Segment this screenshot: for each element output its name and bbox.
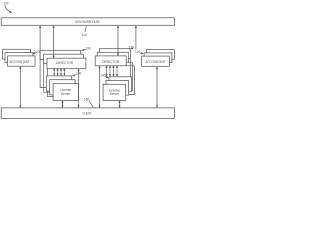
svg-text:100: 100 <box>4 1 9 6</box>
accountant-R back box <box>147 50 175 60</box>
wire director-R back box to license-R back box <box>130 59 131 87</box>
wire warehouse to director-L front (double arrow) <box>53 26 55 58</box>
svg-text:DIRECTOR: DIRECTOR <box>102 60 119 64</box>
label 120 left <box>34 50 40 54</box>
arrow 120-R to stack <box>140 52 144 55</box>
accountant-L back box <box>3 49 31 59</box>
wire warehouse to director-R front (double arrow) <box>117 26 119 56</box>
box data warehouse <box>1 18 174 26</box>
arrows director-L to license-L (4 short double arrows) <box>54 68 64 75</box>
svg-text:CLIENT: CLIENT <box>83 112 92 116</box>
svg-text:DIRECTOR: DIRECTOR <box>56 61 73 65</box>
leader 110 <box>85 26 87 32</box>
license-L front box <box>53 84 78 101</box>
wire warehouse to right 120 area <box>135 26 137 50</box>
wire director-R mid box to license-R mid box <box>128 62 132 90</box>
wire license-L to client (double arrow) <box>62 101 64 108</box>
svg-text:Server: Server <box>61 92 71 96</box>
svg-text:140: 140 <box>100 73 106 77</box>
svg-text:130: 130 <box>129 45 135 49</box>
svg-text:120: 120 <box>135 50 141 54</box>
svg-text:130: 130 <box>85 47 91 51</box>
director-R back box <box>99 49 130 59</box>
label 110 <box>82 33 87 37</box>
arrow 140-L to license stack <box>73 75 77 76</box>
arrow 120-L to stack <box>33 52 36 55</box>
label 130 right <box>129 45 135 49</box>
svg-text:150: 150 <box>84 98 90 102</box>
director-L middle box <box>44 54 84 63</box>
label 100 <box>4 1 9 6</box>
svg-text:110: 110 <box>82 33 87 37</box>
svg-text:ACCOUNTANT: ACCOUNTANT <box>10 60 30 64</box>
director-R front box <box>95 56 126 66</box>
leader arrow from 100 <box>5 5 12 13</box>
license-L middle box <box>50 80 75 95</box>
label 120 right <box>135 50 141 54</box>
license-R back box <box>109 77 132 92</box>
accountant-R middle box <box>144 53 172 63</box>
director-R middle box <box>97 52 128 62</box>
arrows director-R to license-R (4 short double arrows) <box>107 66 118 77</box>
accountant-L front box <box>8 56 35 66</box>
accountant-R front box <box>142 56 170 66</box>
accountant-L middle box <box>5 53 33 63</box>
label 140 left <box>76 72 82 76</box>
license-L back box <box>46 76 71 91</box>
wire director-L front box to license-L front box <box>47 69 53 97</box>
license-R middle box <box>106 81 129 96</box>
wire accountant-L to client (double arrow) <box>19 67 21 108</box>
label 130 left <box>85 47 91 51</box>
wire license-R to client (double arrow) <box>119 101 121 108</box>
label 150 <box>84 98 90 102</box>
wire director-R to client (double arrow) <box>99 66 101 107</box>
label DATA WAREHOUSE <box>75 20 101 24</box>
svg-text:DATA WAREHOUSE: DATA WAREHOUSE <box>75 20 101 24</box>
license-R front box <box>103 84 126 100</box>
svg-text:120: 120 <box>34 50 40 54</box>
svg-text:140: 140 <box>76 72 82 76</box>
director-L back box <box>40 50 81 59</box>
wire director-L mid box to license-L mid box <box>44 64 50 93</box>
wire warehouse to director-L back corner and license-L back box <box>40 26 46 88</box>
label CLIENT <box>83 112 92 116</box>
svg-text:Server: Server <box>110 92 120 96</box>
director-L front box <box>47 58 86 68</box>
wire director-R front box to license-R front box <box>126 66 135 95</box>
svg-text:ACCOUNTANT: ACCOUNTANT <box>146 60 166 64</box>
box client <box>1 108 174 119</box>
wire director-L to client (double arrow) <box>78 69 80 107</box>
label 140 right <box>100 73 106 77</box>
arrow 130-R to stack <box>131 47 132 49</box>
arrow 140-R to license stack <box>105 76 108 77</box>
arrow 130-L to stack <box>82 49 86 50</box>
leader 150 to client <box>89 101 93 108</box>
wire accountant-R to client (double arrow) <box>156 67 158 108</box>
